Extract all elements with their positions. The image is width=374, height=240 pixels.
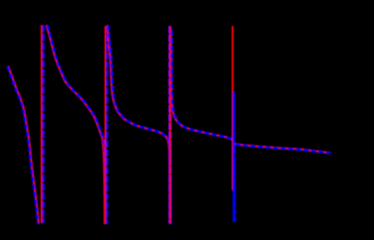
red solid curve: branch between poles -2 and -1 — [107, 25, 170, 224]
asymptote line 1 (pole x=-3), red curve segment — [41, 25, 43, 223]
blue dashed curve: left branch — [7, 66, 38, 224]
red solid curve: left branch (x=-3.5 to pole at x=-3) — [8, 66, 39, 224]
blue dashed curve: branch between poles -1 and 0 — [172, 30, 235, 222]
asymptote line 4 (pole x=0), red segment upper — [232, 26, 234, 190]
asymptote line 3, red curve segment on top — [169, 26, 171, 223]
red solid curve: branch between poles -1 and 0 — [171, 30, 234, 222]
asymptote line 2 (pole x=-2), red curve segment — [104, 26, 106, 224]
blue dashed curve: branch between poles -3 and -2 — [48, 25, 106, 224]
blue dashed curve: branch between poles -2 and -1 — [108, 25, 171, 224]
asymptote line 4, blue segment lower — [233, 92, 236, 222]
blue dashed curve: tail for x>0 — [235, 144, 330, 153]
red solid curve: branch between poles -3 and -2 — [47, 25, 105, 224]
asymptote line 3 (pole x=-1), blue dashed segment (wide, under red) — [168, 26, 171, 223]
asymptote line 1, blue dashed segment — [42, 25, 44, 223]
red solid curve: tail for x>0 — [235, 144, 330, 153]
asymptote line 2, blue dashed segment — [106, 26, 108, 224]
